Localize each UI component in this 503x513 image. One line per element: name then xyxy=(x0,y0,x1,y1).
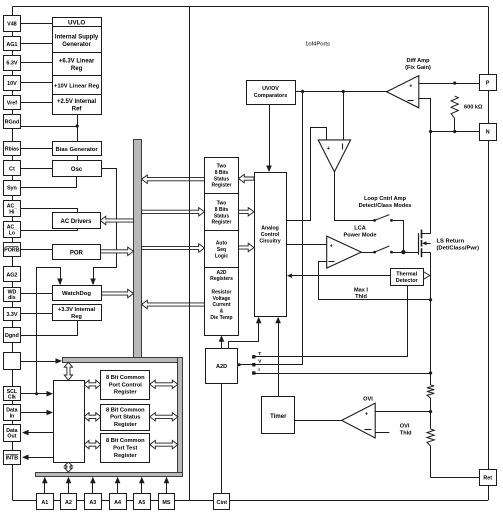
svg-text:Port Status: Port Status xyxy=(110,415,140,421)
svg-text:Registers: Registers xyxy=(210,276,233,282)
svg-text:MS: MS xyxy=(162,500,170,506)
svg-text:Register: Register xyxy=(211,220,231,226)
svg-text:Dgnd: Dgnd xyxy=(5,333,19,339)
svg-text:UV/OV: UV/OV xyxy=(262,86,279,92)
svg-text:LCA: LCA xyxy=(354,226,366,232)
svg-text:Reg: Reg xyxy=(71,314,82,320)
svg-text:Power Mode: Power Mode xyxy=(344,232,377,238)
svg-text:Register: Register xyxy=(114,422,138,428)
svg-text:OVI: OVI xyxy=(400,424,410,430)
svg-text:&: & xyxy=(220,309,224,315)
svg-text:A1: A1 xyxy=(41,500,48,506)
svg-text:8 Bit Common: 8 Bit Common xyxy=(106,438,145,444)
svg-text:N: N xyxy=(486,130,490,136)
svg-text:INTB: INTB xyxy=(6,455,19,461)
svg-text:Ct: Ct xyxy=(9,166,15,172)
svg-text:8 Bit Common: 8 Bit Common xyxy=(106,375,145,381)
svg-text:(Fix Gain): (Fix Gain) xyxy=(405,65,431,71)
svg-text:Bias Generator: Bias Generator xyxy=(55,147,98,153)
svg-text:+: + xyxy=(327,146,330,152)
svg-text:Port Test: Port Test xyxy=(113,446,137,452)
svg-text:Auto: Auto xyxy=(216,241,227,247)
svg-text:+3.3V Internal: +3.3V Internal xyxy=(58,307,96,313)
svg-text:Current: Current xyxy=(212,302,230,308)
svg-text:6.3V: 6.3V xyxy=(6,61,17,67)
svg-text:dis: dis xyxy=(8,295,16,301)
svg-text:Control: Control xyxy=(261,232,280,238)
svg-text:Register: Register xyxy=(114,390,138,396)
svg-text:RGnd: RGnd xyxy=(5,120,20,126)
svg-text:10V: 10V xyxy=(7,81,17,87)
svg-text:OVI: OVI xyxy=(363,397,373,403)
svg-text:Detect/Class Modes: Detect/Class Modes xyxy=(359,203,412,209)
svg-text:Cint: Cint xyxy=(217,500,228,506)
svg-text:Internal Supply: Internal Supply xyxy=(55,35,99,41)
svg-text:Clk: Clk xyxy=(8,394,16,400)
svg-text:Thld: Thld xyxy=(400,430,412,436)
svg-text:Ref: Ref xyxy=(72,106,83,112)
svg-text:Port Control: Port Control xyxy=(109,382,143,388)
svg-text:P: P xyxy=(486,80,490,86)
svg-text:T: T xyxy=(258,351,261,357)
svg-text:Reg: Reg xyxy=(71,66,83,72)
svg-text:+6.3V Linear: +6.3V Linear xyxy=(59,59,95,65)
svg-text:Two: Two xyxy=(217,164,227,170)
svg-text:Two: Two xyxy=(217,201,227,207)
svg-text:Diff Amp: Diff Amp xyxy=(406,58,430,64)
svg-text:+: + xyxy=(409,84,412,90)
svg-text:A4: A4 xyxy=(114,500,121,506)
svg-text:A2D: A2D xyxy=(216,364,227,370)
svg-text:+: + xyxy=(330,244,333,250)
svg-text:Comparators: Comparators xyxy=(254,93,288,99)
svg-text:Syn: Syn xyxy=(7,186,17,192)
svg-text:Vref: Vref xyxy=(7,101,17,107)
svg-text:In: In xyxy=(10,413,15,419)
svg-text:8 Bit Common: 8 Bit Common xyxy=(106,407,145,413)
svg-text:Rbias: Rbias xyxy=(5,147,19,153)
svg-text:Register: Register xyxy=(114,453,138,459)
svg-text:3.3V: 3.3V xyxy=(6,312,17,318)
svg-text:Die Temp: Die Temp xyxy=(210,315,232,321)
svg-text:AG1: AG1 xyxy=(6,42,17,48)
svg-text:A2D: A2D xyxy=(216,270,226,276)
svg-text:Seq: Seq xyxy=(217,247,226,253)
svg-text:600 kΩ: 600 kΩ xyxy=(464,104,483,110)
svg-text:(Det/Class/Pwr): (Det/Class/Pwr) xyxy=(437,245,480,251)
svg-text:8 Bits: 8 Bits xyxy=(215,207,229,213)
svg-text:Osc: Osc xyxy=(71,167,83,173)
svg-text:Voltage: Voltage xyxy=(213,296,231,302)
svg-text:A2: A2 xyxy=(65,500,72,506)
svg-text:AG2: AG2 xyxy=(6,272,17,278)
svg-text:V48: V48 xyxy=(7,21,17,27)
svg-text:Lo: Lo xyxy=(9,230,15,236)
svg-text:8 Bits: 8 Bits xyxy=(215,170,229,176)
svg-text:Circuitry: Circuitry xyxy=(259,238,280,244)
svg-text:UVLO: UVLO xyxy=(68,19,85,26)
svg-text:Logic: Logic xyxy=(215,254,229,260)
svg-text:A5: A5 xyxy=(138,500,145,506)
svg-text:Max I: Max I xyxy=(354,287,368,293)
svg-text:Generator: Generator xyxy=(62,42,91,48)
svg-text:LS Return: LS Return xyxy=(437,238,465,244)
svg-text:+10V Linear Reg: +10V Linear Reg xyxy=(54,84,100,90)
svg-text:WatchDog: WatchDog xyxy=(62,291,91,297)
svg-text:Resistor: Resistor xyxy=(211,289,231,295)
svg-text:Detector: Detector xyxy=(396,278,419,284)
svg-text:Status: Status xyxy=(214,176,230,182)
svg-text:A3: A3 xyxy=(89,500,96,506)
svg-text:PORB: PORB xyxy=(4,248,20,254)
svg-text:Status: Status xyxy=(214,213,230,219)
svg-text:Analog: Analog xyxy=(261,225,279,231)
svg-text:POR: POR xyxy=(70,251,84,257)
svg-text:1of4Ports: 1of4Ports xyxy=(305,42,330,48)
svg-text:Register: Register xyxy=(211,183,231,189)
svg-text:Ret: Ret xyxy=(483,475,492,481)
svg-text:AC Drivers: AC Drivers xyxy=(60,219,92,225)
svg-text:Thld: Thld xyxy=(355,294,367,300)
svg-text:Timer: Timer xyxy=(270,414,287,420)
svg-text:+: + xyxy=(365,411,368,417)
svg-text:Loop Cntrl Amp: Loop Cntrl Amp xyxy=(364,196,407,202)
svg-text:Thermal: Thermal xyxy=(396,271,417,277)
svg-text:+2.5V Internal: +2.5V Internal xyxy=(57,99,97,105)
svg-text:Hi: Hi xyxy=(9,209,15,215)
svg-text:Out: Out xyxy=(7,433,16,439)
